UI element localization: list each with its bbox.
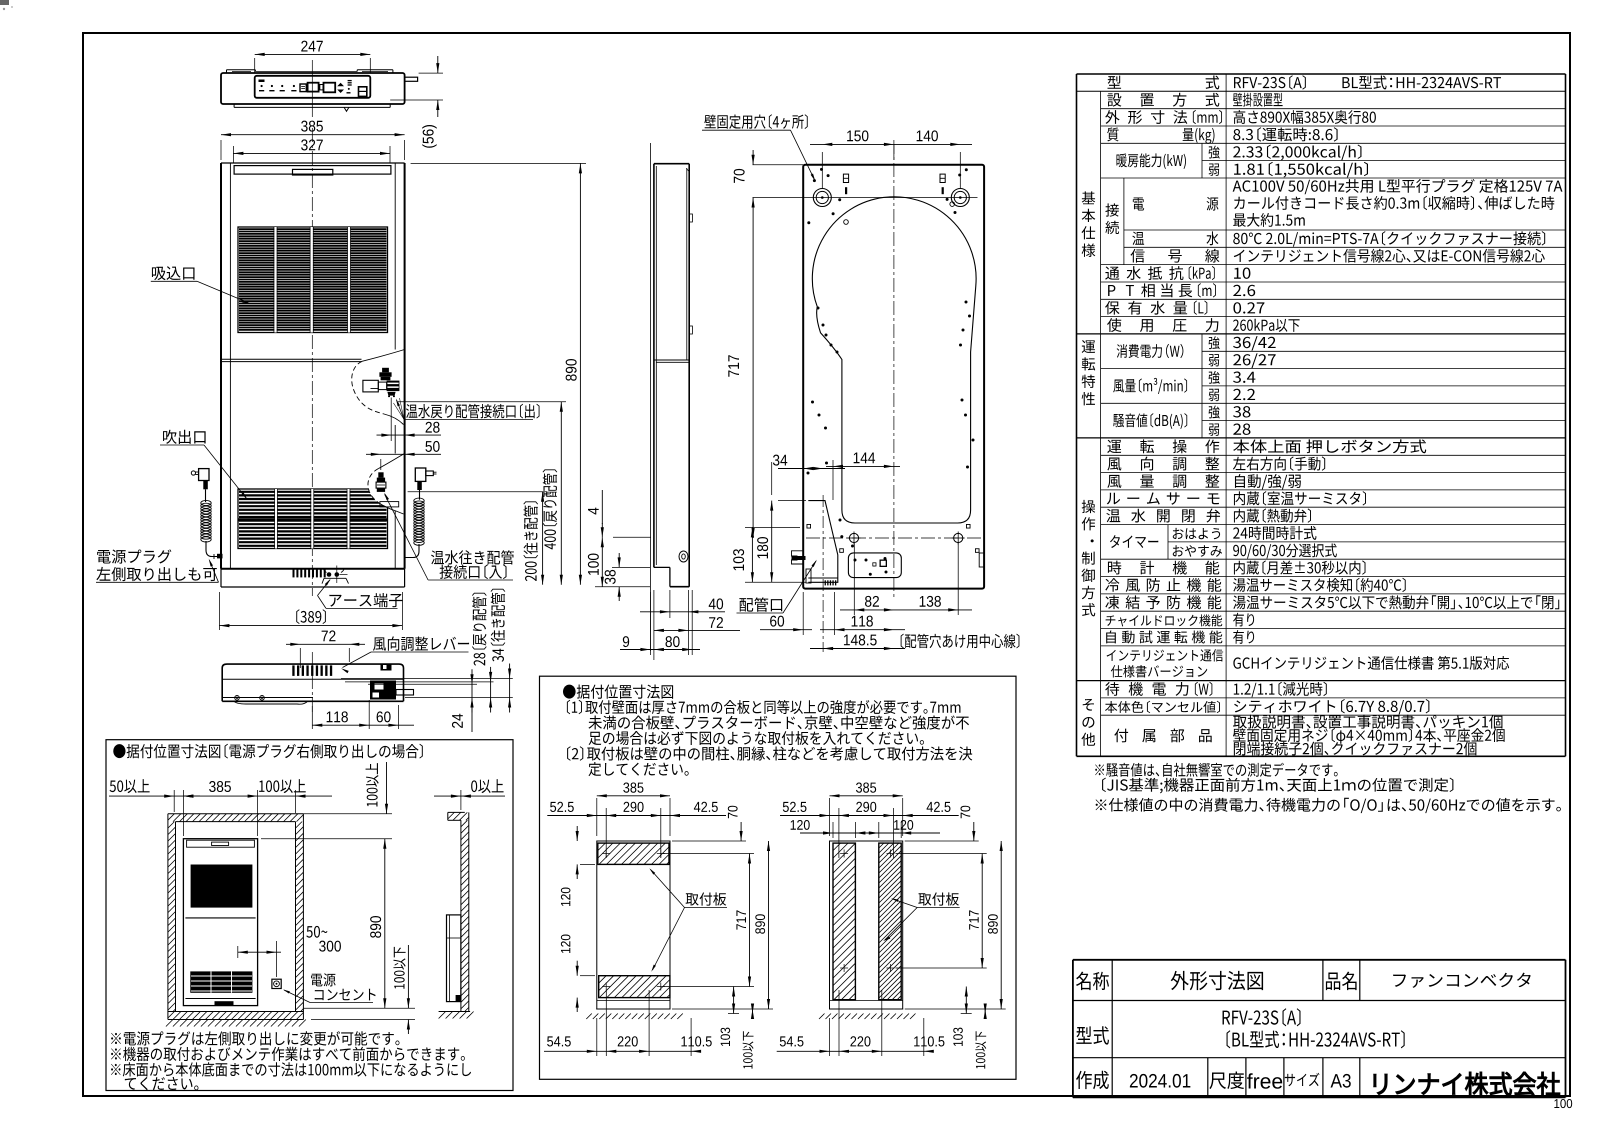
dimension 890 (411, 162, 586, 164)
label: return pipe connection (out) (406, 404, 540, 419)
box1: power outlet (272, 979, 281, 988)
box1 label: power outlet (311, 973, 336, 986)
table values (1234, 75, 1306, 89)
dimension 247 (254, 58, 256, 73)
side view: unit body (654, 163, 689, 165)
installation diagram box 1 frame (106, 740, 513, 1091)
front view: unit outline (220, 163, 222, 569)
title block (1073, 959, 1566, 961)
bottom view: lever slots (292, 665, 294, 676)
front view: mid divider (221, 358, 362, 360)
box1: wall section with hatching (168, 813, 304, 815)
specification table (1077, 73, 1566, 75)
box1: unit front view (183, 839, 257, 1006)
rear view: spot weld dots (813, 179, 816, 182)
dimensions 118 and 60 (311, 706, 313, 729)
label: pipe port (739, 597, 782, 611)
dimension 50 (366, 453, 441, 455)
bottom view: lever mechanism (370, 681, 396, 700)
table row labels (1108, 76, 1122, 89)
dimension 200 supply pipe height (408, 491, 547, 493)
dimension 385 (220, 140, 222, 160)
front view: suction grille (kyuukomi-guchi) (238, 227, 388, 333)
label: power plug left option (97, 549, 171, 563)
dimension 400 return pipe height (398, 401, 566, 403)
front view: detail bubble mask (368, 454, 404, 515)
rear view: keyhole slots (843, 174, 848, 182)
front view: hot-water return valve (382, 368, 389, 373)
rear view: hook tab (792, 551, 804, 564)
label: air direction lever (373, 636, 469, 650)
box2: left mounting-board diagram (597, 841, 670, 1009)
rear view: keyhole cutout (812, 197, 976, 523)
dimensions 150/140/70 (821, 152, 823, 188)
box2: instruction text (567, 700, 961, 715)
side view: wall line (649, 143, 651, 651)
box2: right mounting-board diagram (830, 841, 903, 1009)
label: wall fixing holes (4 places) (704, 114, 807, 129)
dimension 717 (752, 198, 754, 539)
rear view: pipe opening (808, 501, 838, 583)
dimension 72 (299, 648, 301, 668)
front view: left power plug and coiled cord (199, 469, 209, 481)
label: outlet port (163, 430, 206, 444)
dimensions 40/72/9/80 (640, 611, 725, 613)
dimensions 24, 28(return), 34(supply) (341, 678, 513, 680)
dimension 28 (377, 434, 442, 436)
label: supply pipe connection (in) (431, 550, 514, 564)
installation diagram box 2 frame (540, 676, 1017, 1079)
dimension 327 (232, 146, 234, 163)
label: suction port (152, 266, 195, 280)
box1: clearance dimensions (173, 790, 175, 812)
table group labels (1082, 191, 1095, 204)
rear view: unit outline (803, 165, 984, 589)
front view: top cap and handle (234, 166, 391, 175)
top view: centerline (311, 60, 313, 117)
rear view: wall fixing holes (813, 189, 831, 207)
rear view: screw holes (849, 533, 858, 542)
dimensions 82/138/118/60/148.5 (853, 543, 855, 615)
dimension (56) (419, 72, 443, 74)
front view: right power plug and coiled cord (415, 468, 426, 481)
box1: notes (111, 1031, 399, 1045)
top view: unit body (221, 73, 405, 104)
top view: control panel (255, 76, 371, 98)
front view: hot-water supply valve (378, 472, 383, 477)
bottom view: unit outline (222, 664, 403, 701)
dimension (389) (218, 592, 220, 630)
front view: outlet grille (fukidashi-guchi) (238, 489, 388, 549)
label: earth terminal (329, 593, 402, 607)
corner scan artifact (0, 0, 9, 5)
box2: 120 plate dimensions (576, 826, 578, 841)
rear view: connector box (848, 553, 901, 578)
front view: base with vents and earth terminal (221, 568, 405, 570)
box1: side wall section (0-clearance) (448, 811, 465, 813)
top view: power plug stub (405, 77, 418, 81)
dimensions 34/180/103/144 (771, 462, 773, 495)
side view dimensions 4/100/38 (613, 536, 651, 538)
notes under table (1095, 763, 1337, 777)
